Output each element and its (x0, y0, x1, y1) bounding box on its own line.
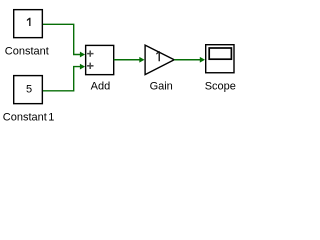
wire Gain to Scope (174, 59, 202, 61)
constant block Constant1 (14, 76, 43, 104)
constant block Constant (14, 10, 43, 38)
value label 1 (Gain) (156, 51, 160, 61)
svg-text:Constant: Constant (5, 45, 49, 57)
wire Constant1 to Add input 2 (43, 67, 82, 91)
sum block Add (86, 45, 114, 74)
svg-text:Add: Add (91, 80, 111, 92)
arrowhead into Scope (200, 57, 205, 63)
scope screen inner rect (209, 48, 231, 59)
arrowhead into Gain (139, 57, 144, 63)
plus sign input 2 (87, 63, 93, 69)
gain block triangle (145, 45, 174, 75)
svg-text:5: 5 (26, 84, 32, 96)
scope block outer (206, 45, 234, 73)
plus sign input 1 (87, 51, 93, 57)
value label 1 (Constant) (27, 18, 31, 26)
wire Add to Gain (114, 59, 142, 61)
svg-text:Gain: Gain (150, 80, 173, 92)
arrowhead into Add input 2 (80, 64, 85, 70)
svg-text:Scope: Scope (205, 80, 236, 92)
svg-text:Constant1: Constant1 (3, 111, 55, 123)
arrowhead into Add input 1 (80, 52, 85, 58)
wire Constant to Add input 1 (43, 24, 82, 54)
